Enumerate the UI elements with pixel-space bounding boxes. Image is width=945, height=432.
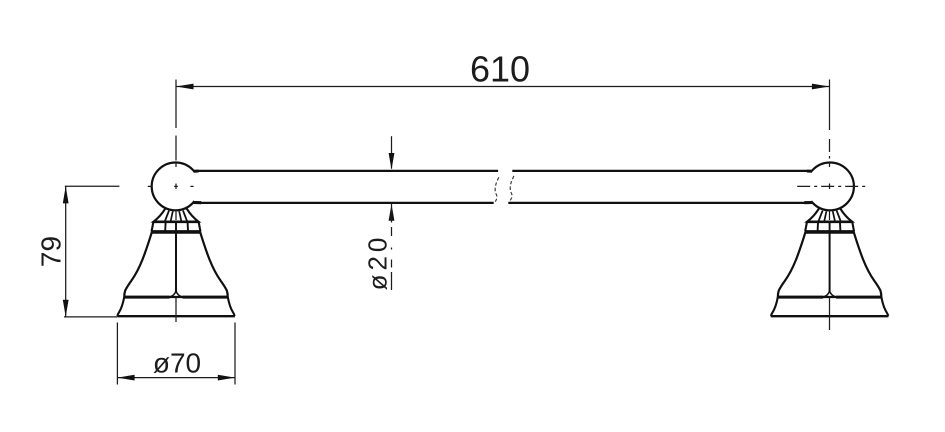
crease tent at rim (170, 291, 183, 297)
bar interior mask (194, 170, 812, 205)
right post assembly (mirror of left) (771, 163, 889, 317)
svg-text:ø20: ø20 (362, 234, 392, 291)
base bottom edge (117, 315, 235, 317)
svg-text:610: 610 (470, 49, 530, 90)
dimension 79 (63, 186, 120, 317)
mounting ball (152, 163, 200, 211)
center line right post vertical (829, 80, 831, 331)
svg-text:79: 79 (36, 236, 67, 267)
bell center crease (175, 232, 177, 291)
base skirt (117, 297, 124, 316)
center line left post vertical (175, 80, 177, 323)
bell body (124, 233, 228, 297)
dimension 610 (176, 84, 829, 90)
center line left ball horizontal (148, 185, 194, 187)
bar top edge (194, 170, 499, 172)
neck flare (154, 208, 199, 221)
bar-ball fillet right (807, 170, 812, 173)
dimension diameter 20 (389, 136, 395, 290)
center line right ball horizontal (797, 185, 867, 187)
bar-ball fillet left (194, 170, 199, 173)
break squiggle left (495, 177, 499, 203)
break squiggle right (510, 176, 514, 202)
bell rim line (124, 296, 169, 299)
bar bottom edge (194, 202, 494, 204)
left post assembly (117, 163, 235, 317)
collar band (153, 222, 200, 231)
dimension diameter 70 (117, 323, 235, 385)
neck flute lines (165, 211, 169, 222)
svg-text:ø70: ø70 (153, 348, 201, 379)
